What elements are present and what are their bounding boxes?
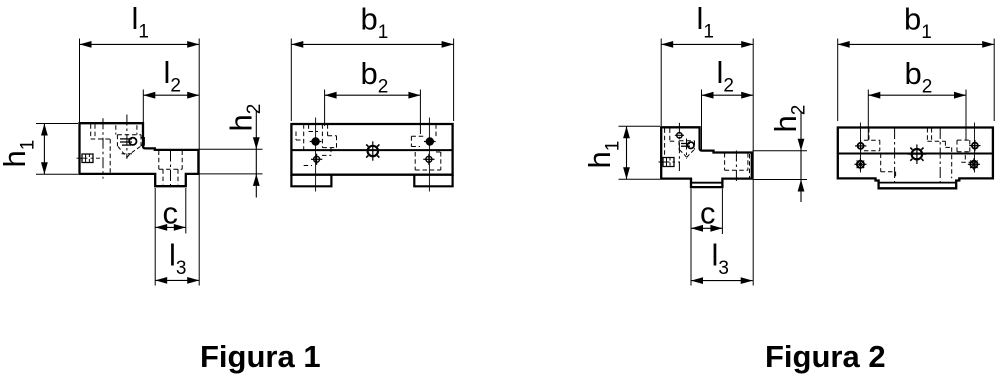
fig2 front view hidden lines left	[868, 128, 870, 140]
svg-text:Figura 2: Figura 2	[765, 339, 886, 374]
fig1 dimension b1	[291, 43, 453, 45]
figure 2 side view outline	[661, 127, 752, 187]
svg-text:Figura 1: Figura 1	[200, 339, 321, 374]
fig1 front view hidden lines left cluster	[303, 124, 305, 151]
fig2 dimension l1 extension lines	[660, 39, 662, 127]
fig1 front view mid line	[291, 149, 452, 151]
fig1 side view tab hidden slot	[158, 151, 160, 170]
figure 1 side view outline	[80, 123, 199, 186]
fig2 front view hidden lines middle	[926, 128, 928, 141]
fig1 side view left screw detail	[77, 157, 101, 159]
fig1 dimension h1	[43, 124, 45, 175]
svg-text:h1: h1	[582, 141, 624, 169]
fig2 dimension h2 extension lines	[753, 150, 808, 152]
fig2 front view dash-dot centerline right	[939, 128, 941, 186]
fig2 dimension h1 extension lines	[619, 125, 661, 127]
figure 1 front view outline	[291, 124, 452, 175]
fig2 dimension b1 extension lines	[837, 39, 839, 122]
fig1 dimension h1 extension lines	[36, 123, 78, 125]
fig1 dimension l2 extension line	[142, 90, 144, 147]
fig1 dimension c	[155, 226, 186, 228]
fig2 dimension b2 extension lines	[867, 90, 869, 141]
fig2 side view tab inner line	[691, 182, 722, 184]
fig1 dimension h2 extension lines	[200, 148, 263, 150]
fig1 dimension b1 extension lines	[290, 39, 292, 122]
fig2 front view dash-dot centerline left	[894, 128, 896, 186]
fig2 side view hidden slot	[664, 128, 666, 158]
fig1 front view bottom-left screw	[314, 156, 320, 162]
fig2 side view right hidden slot	[724, 153, 726, 170]
fig2 front view hidden lines right	[957, 139, 970, 141]
fig2 side view centerline	[678, 123, 680, 171]
fig1 dimension b2	[325, 94, 421, 96]
fig2 front view top-left screw	[858, 143, 864, 149]
fig1 side view hidden slot	[90, 124, 92, 139]
fig2 dimension l2	[702, 94, 754, 96]
svg-text:h2: h2	[768, 105, 810, 133]
fig2 front view bottom-left screw	[857, 161, 864, 168]
fig1 front view right foot	[414, 175, 452, 187]
fig1 side view detent detail	[126, 115, 128, 159]
figure 2 front view outline	[838, 128, 993, 189]
svg-text:l1: l1	[697, 1, 714, 43]
svg-text:h1: h1	[0, 140, 39, 168]
fig1 dimension h2	[255, 110, 257, 198]
fig1 dimension b2 extension lines	[324, 90, 326, 127]
fig1 dimension l3 extension line	[154, 234, 156, 286]
fig2 dimension h2	[800, 111, 802, 202]
fig2 dimension b2	[868, 94, 966, 96]
fig1 dimension l1 extension lines	[79, 39, 81, 123]
fig2 front view right hole centerline	[974, 123, 976, 173]
svg-text:b1: b1	[361, 2, 389, 44]
fig2 dimension c	[691, 227, 722, 229]
fig1 front view center hole	[368, 146, 378, 156]
svg-text:l3: l3	[712, 238, 729, 280]
fig1 dimension l2	[143, 94, 199, 96]
fig2 dimension l2 extension line	[701, 90, 703, 150]
fig2 front view center hole	[912, 149, 922, 159]
fig2 front view mid line	[838, 153, 993, 155]
fig1 front view hidden lines right cluster	[410, 136, 412, 146]
fig2 front view top-right screw	[972, 143, 978, 149]
fig1 side view centerline	[102, 118, 104, 178]
fig1 dimension l1	[80, 43, 200, 45]
fig2 side view left screw detail	[659, 161, 681, 163]
fig2 dimension l3	[691, 280, 753, 282]
fig1 front view left foot	[291, 175, 331, 187]
svg-text:c: c	[163, 196, 179, 231]
fig1 front view top-left screw	[311, 137, 319, 145]
svg-text:b2: b2	[361, 56, 389, 98]
svg-text:l2: l2	[717, 55, 734, 97]
fig1 dimension c extension lines	[154, 188, 156, 234]
svg-text:h2: h2	[224, 104, 266, 132]
svg-text:l2: l2	[164, 55, 181, 97]
fig2 dimension c extension lines	[690, 189, 692, 235]
fig2 dimension h1	[626, 126, 628, 179]
svg-text:b2: b2	[905, 56, 933, 98]
fig1 dimension l3	[155, 279, 199, 281]
fig1 front view left hole centerline	[315, 118, 317, 192]
fig2 side view small screw circle	[677, 133, 682, 138]
fig2 front view tab inner line	[879, 182, 957, 184]
svg-text:b1: b1	[904, 2, 932, 44]
fig2 dimension b1	[838, 43, 995, 45]
fig2 front view bottom-right screw	[970, 161, 977, 168]
fig2 side view detent detail	[686, 139, 688, 159]
svg-text:l3: l3	[169, 238, 186, 280]
svg-text:l1: l1	[132, 1, 149, 43]
fig2 front view left hole centerline	[860, 123, 862, 173]
fig2 dimension l3 extension line	[690, 234, 692, 286]
fig1 front view bottom-right screw	[426, 156, 432, 162]
svg-text:c: c	[700, 196, 716, 231]
fig1 front view top-right screw	[426, 137, 434, 145]
fig2 dimension l1	[661, 43, 753, 45]
fig1 front view right hole centerline	[428, 118, 430, 192]
